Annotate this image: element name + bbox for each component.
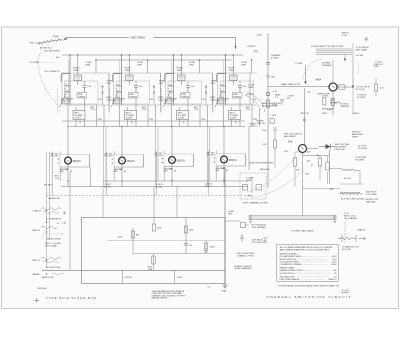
svg-text:SHIELD: SHIELD (352, 113, 360, 115)
IF coupling coil (342, 169, 354, 170)
svg-text:FINE TUNER RANGE: FINE TUNER RANGE (280, 278, 300, 281)
svg-text:2ND CON: 2ND CON (30, 43, 40, 45)
svg-text:MANUAL SHEET 2: MANUAL SHEET 2 (152, 297, 170, 300)
svg-text:B COIL: B COIL (104, 186, 110, 188)
coil feed wire (303, 188, 341, 190)
svg-text:2ND BOOSTER: 2ND BOOSTER (47, 239, 62, 241)
svg-text:SERIES STRING 6.3V A.C.: SERIES STRING 6.3V A.C. (280, 269, 305, 272)
svg-text:+250V: +250V (256, 35, 263, 37)
svg-text:LINK: LINK (159, 83, 164, 85)
svg-text:BOTTOM CORE SLUG ADJ: BOTTOM CORE SLUG ADJ (341, 198, 365, 201)
svg-text:ON CHASSIS: ON CHASSIS (344, 217, 357, 220)
ganged dashed curve top (303, 59, 322, 80)
svg-text:6AG5 CONVERTER: 6AG5 CONVERTER (262, 102, 281, 105)
channel strip 1 (60, 54, 110, 126)
ganged switch dashed line (46, 195, 252, 197)
svg-text:MIX BUS: MIX BUS (44, 184, 53, 186)
B plus distribution box (82, 218, 226, 284)
takeoff capacitor (240, 234, 244, 242)
svg-text:47pF MICA: 47pF MICA (252, 238, 263, 241)
svg-text:OSC: OSC (284, 151, 289, 153)
svg-text:COAX: COAX (158, 98, 164, 101)
gang dashed verticals (110, 88, 214, 113)
svg-text:AT GRID No.1: AT GRID No.1 (40, 46, 52, 49)
decoupling chain R1 (132, 228, 134, 254)
svg-text:IF STRIP: IF STRIP (357, 97, 366, 99)
svg-text:B COIL: B COIL (205, 186, 211, 188)
svg-text:SOCKET PIN 4,5: SOCKET PIN 4,5 (280, 273, 296, 275)
wire bus above tubes (70, 126, 245, 128)
svg-text:CHANNEL SWITCHING CIRCUIT: CHANNEL SWITCHING CIRCUIT (267, 295, 352, 299)
svg-text:6U8: 6U8 (288, 142, 293, 144)
svg-text:4 LINES: 4 LINES (271, 58, 279, 60)
svg-text:41.25 SND: 41.25 SND (358, 148, 368, 150)
svg-text:+ 5.2V: + 5.2V (272, 91, 278, 93)
converter plate wire (337, 86, 352, 88)
wire to coax (225, 221, 249, 225)
svg-text:LINK: LINK (211, 83, 216, 85)
registration cross right (364, 37, 368, 41)
grid resistor (293, 158, 296, 166)
anode load resistor (266, 100, 269, 108)
svg-text:+105V: +105V (117, 237, 123, 239)
sound takeoff dashes (357, 62, 359, 74)
blocking capacitor (266, 62, 270, 64)
aerial terminal group 4 (33, 259, 61, 269)
bias resistor (326, 162, 329, 170)
svg-text:+ MATCH: + MATCH (357, 229, 366, 232)
tube V5 converter (329, 83, 337, 91)
svg-text:+250V: +250V (331, 264, 338, 266)
svg-text:21.9 MC: 21.9 MC (356, 55, 364, 57)
svg-text:+0 x: +0 x (207, 286, 211, 288)
tube V6 oscillator (299, 145, 307, 153)
ganged fine-tuning dashed curve (38, 50, 61, 109)
svg-text:SOUND REJECT FILTER 41.25MC: SOUND REJECT FILTER 41.25MC (311, 46, 344, 48)
IF input coil (338, 235, 366, 242)
svg-text:TRIM 100: TRIM 100 (257, 123, 265, 125)
screen decoupling chain (205, 241, 207, 254)
registration cross left (35, 298, 39, 302)
svg-text:100K: 100K (157, 228, 162, 230)
svg-text:LINE: LINE (374, 66, 379, 68)
trap junction circle (266, 92, 269, 95)
svg-text:VALVE VOLTAGES: VALVE VOLTAGES (280, 253, 298, 256)
svg-text:R.F. AMPLIFIER PLATE: R.F. AMPLIFIER PLATE (280, 255, 302, 258)
svg-text:4.5MC: 4.5MC (53, 36, 60, 38)
svg-text:45.75 MC: 45.75 MC (342, 249, 352, 251)
tuner output corner wire (248, 127, 250, 171)
svg-text:B COIL: B COIL (156, 186, 162, 188)
svg-text:AND MIXER: AND MIXER (284, 135, 296, 138)
decoupling chain R2 C2 (185, 218, 187, 254)
svg-text:SEC: SEC (330, 189, 335, 191)
svg-text:1N64 CRYSTAL: 1N64 CRYSTAL (335, 143, 351, 146)
svg-text:TAP: TAP (228, 213, 233, 216)
svg-text:OTHER CHANNELS: OTHER CHANNELS (234, 267, 252, 270)
svg-text:MIXER GRID: MIXER GRID (322, 109, 334, 111)
vertical IF takeoff wire (352, 57, 354, 88)
oscillator wiring (303, 149, 330, 216)
tube V4 6BQ7A (207, 147, 246, 195)
oscillator waveform sketch (39, 39, 63, 45)
left column components (273, 128, 277, 136)
crystal diode mixer (326, 144, 331, 149)
svg-text:HTR 6.3V: HTR 6.3V (300, 113, 309, 115)
tube feed wires (68, 127, 224, 148)
svg-text:CARRIER: CARRIER (340, 105, 350, 108)
svg-text:300 OHM TWIN: 300 OHM TWIN (46, 267, 61, 269)
svg-text:AGC BIAS LINE: AGC BIAS LINE (280, 275, 295, 278)
agc line wire (107, 240, 225, 242)
svg-text:S.W.BUSH: S.W.BUSH (37, 288, 47, 290)
svg-text:6.3V A.C.: 6.3V A.C. (125, 276, 133, 279)
svg-text:B.O. FEEDER IN: B.O. FEEDER IN (46, 218, 62, 220)
svg-text:VHF OSCILLATOR: VHF OSCILLATOR (284, 132, 302, 135)
main earth wire (224, 167, 226, 285)
svg-text:1ST ANODE COIL: 1ST ANODE COIL (342, 245, 360, 248)
output coil L IF (340, 192, 360, 194)
svg-text:ANODE CIRCUIT: ANODE CIRCUIT (262, 105, 279, 108)
converter feed wire (267, 34, 269, 189)
svg-text:+180V: +180V (247, 195, 254, 197)
svg-text:TYPE 8478 FLUSH-MTG: TYPE 8478 FLUSH-MTG (46, 296, 97, 300)
svg-text:45.75 MC: 45.75 MC (356, 89, 366, 91)
upper grid bus wire (62, 120, 245, 122)
svg-text:TRIMMER: TRIMMER (322, 65, 332, 67)
svg-text:ALL SWITCHES: ALL SWITCHES (45, 50, 61, 53)
svg-text:COIL 42MC: COIL 42MC (366, 194, 377, 196)
aerial terminal group 1 (33, 209, 62, 220)
mixer cathode resistor (323, 98, 326, 106)
sound IF ladder lines (316, 43, 353, 61)
mid trap tap (267, 76, 270, 77)
aerial terminal group 3 (33, 229, 62, 241)
svg-text:SPEC CHANNEL 45 OHM: SPEC CHANNEL 45 OHM (243, 201, 268, 204)
grid resistor on drop (152, 224, 155, 231)
V5 grid top wire (332, 60, 334, 83)
heater supply wire (122, 270, 124, 283)
strip 4 narrower cover (257, 69, 267, 109)
ganged dashed arcs to oscillator (247, 157, 295, 192)
svg-text:C TRIM 1K: C TRIM 1K (246, 46, 257, 48)
B plus bus wire (62, 54, 243, 56)
svg-text:470: 470 (189, 245, 192, 247)
svg-text:3.3: 3.3 (275, 97, 278, 99)
IF takeoff wire (330, 169, 361, 185)
svg-text:+250V: +250V (177, 277, 183, 279)
svg-text:DISCRIM: DISCRIM (355, 160, 364, 162)
svg-text:75 OHM COAX CABLE: 75 OHM COAX CABLE (291, 229, 314, 232)
cathode bus wires (103, 180, 248, 182)
svg-text:WAVE TRAPS 41.25: WAVE TRAPS 41.25 (281, 83, 301, 86)
svg-text:COAX: COAX (106, 98, 112, 101)
neutralising junction (303, 119, 306, 122)
svg-text:GANGED SW: GANGED SW (48, 197, 60, 200)
channel strip 3 (163, 54, 213, 126)
tube V3 6BQ7A (155, 147, 194, 195)
svg-text:MAX GAIN: MAX GAIN (366, 200, 376, 203)
channel strip 4 (215, 54, 265, 126)
svg-text:150: 150 (316, 155, 319, 157)
maker crest (342, 290, 350, 293)
svg-text:CHAS: CHAS (221, 289, 227, 292)
svg-text:PROV QUAD: PROV QUAD (45, 244, 58, 247)
svg-text:ADJ: ADJ (264, 239, 268, 242)
heater supply drop wires (70, 167, 177, 270)
svg-text:FOR IMPORTANT NOTES SEE PAGE 2: FOR IMPORTANT NOTES SEE PAGE 2 AND SERVI… (278, 284, 340, 287)
svg-text:AMP CHAIN: AMP CHAIN (356, 49, 368, 52)
svg-text:S.E CONTACTS: S.E CONTACTS (45, 70, 61, 73)
svg-text:4 x: 4 x (57, 223, 60, 225)
svg-text:MATCH: MATCH (33, 259, 41, 262)
svg-text:AND CHASSIS MAINS INPUT 240V: AND CHASSIS MAINS INPUT 240V NO SIGNAL I… (280, 249, 331, 252)
svg-text:EARTH LINK: EARTH LINK (42, 276, 54, 279)
svg-text:1500 CERAMIC: 1500 CERAMIC (252, 226, 267, 229)
HT supply wire (174, 270, 176, 283)
svg-text:COIL: COIL (55, 178, 59, 180)
svg-text:FINE TUNING: FINE TUNING (131, 37, 146, 39)
75 ohm coax cable bar (249, 216, 336, 220)
bleeder resistor (153, 254, 155, 271)
terminal dots (46, 210, 47, 211)
inner bus wire (133, 253, 225, 255)
strip 4 right edge wire (249, 73, 251, 105)
voltage notes box (277, 245, 339, 282)
trimmer arrow wire (305, 65, 307, 84)
cathode chain below V5 (332, 91, 334, 115)
oscillator lower wires (295, 166, 328, 187)
svg-text:PIN 4: PIN 4 (322, 113, 328, 115)
svg-text:A SECTION MIXER GRID: A SECTION MIXER GRID (250, 161, 275, 164)
earth return bus wire (42, 269, 225, 271)
svg-text:OUTPUT: OUTPUT (249, 126, 258, 128)
footnote paragraph (152, 290, 186, 300)
inter-tube drop wire pairs (104, 127, 210, 187)
svg-text:+ 130V: + 130V (270, 115, 277, 117)
svg-text:42.5 MC: 42.5 MC (344, 178, 352, 180)
wave trap wire (268, 85, 329, 87)
antenna feed wires (47, 152, 50, 268)
svg-text:SOUND: SOUND (246, 94, 254, 96)
plate resistor (318, 158, 321, 166)
svg-text:OSCILLATOR PLATE: OSCILLATOR PLATE (280, 260, 300, 263)
svg-text:COAX: COAX (210, 98, 216, 101)
svg-text:VIDEO DET: VIDEO DET (335, 149, 347, 151)
svg-text:TO TUNER: TO TUNER (29, 62, 40, 64)
coax arcs from strip 4 (245, 95, 261, 110)
svg-text:B 104: B 104 (342, 35, 347, 37)
svg-text:3 MATCH: 3 MATCH (33, 209, 42, 212)
svg-text:CATHODE: CATHODE (260, 168, 271, 171)
top bus wire from converter (66, 37, 236, 49)
svg-text:CHANNEL 1 POSN: CHANNEL 1 POSN (237, 255, 254, 258)
svg-text:1500: 1500 (305, 174, 309, 176)
svg-text:470pF: 470pF (210, 246, 216, 248)
button mica capacitor (241, 223, 246, 228)
svg-text:LINK: LINK (107, 83, 112, 85)
svg-text:AMPLIFIER: AMPLIFIER (352, 133, 363, 136)
svg-text:C TRIM: C TRIM (295, 63, 302, 65)
agc feed resistor (374, 84, 377, 91)
chassis ground symbol (223, 285, 228, 288)
svg-text:TRAP: TRAP (248, 86, 254, 89)
svg-text:BUTTON MICA: BUTTON MICA (252, 223, 267, 226)
bus junction dots (67, 126, 68, 127)
svg-text:FUSE: FUSE (246, 180, 252, 182)
IF input feed dashed wire (344, 222, 346, 244)
tube V2 6BQ7A (105, 148, 144, 196)
plate junction drop (352, 87, 354, 112)
svg-text:PAGE 14: PAGE 14 (328, 278, 337, 281)
channel strip 2 (111, 54, 161, 126)
svg-text:MATCH: MATCH (33, 229, 41, 232)
heater dropper dashed box (240, 173, 266, 199)
arrowhead into top bus (64, 38, 67, 40)
screen bus wire (97, 59, 233, 61)
mixer to oscillator wire (304, 88, 306, 145)
grid leak box (270, 119, 274, 124)
svg-text:TO CONV GRID: TO CONV GRID (252, 242, 268, 244)
svg-text:CONV: CONV (322, 96, 328, 98)
tube V1 6BQ7A (51, 148, 90, 196)
svg-text:STRIP: STRIP (352, 137, 359, 139)
arrowhead at bus drop (234, 46, 236, 49)
svg-text:1000: 1000 (189, 229, 193, 231)
svg-text:HEATER CHAIN: HEATER CHAIN (280, 267, 295, 270)
plate load (339, 85, 346, 89)
svg-text:AERIAL: AERIAL (33, 273, 41, 276)
svg-text:6AB4: 6AB4 (316, 78, 322, 81)
